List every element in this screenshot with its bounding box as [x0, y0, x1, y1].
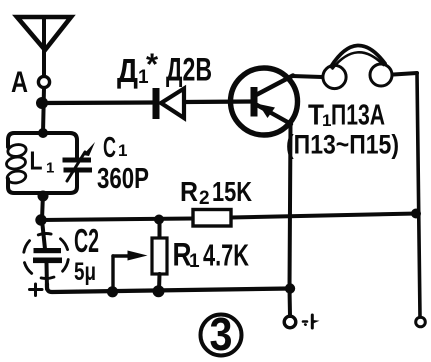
svg-text:C: C [103, 132, 116, 164]
svg-text:Д: Д [117, 52, 138, 89]
svg-text:R: R [180, 176, 198, 207]
svg-text:(П13~П15): (П13~П15) [286, 130, 399, 160]
svg-text:L: L [30, 146, 43, 176]
svg-text:5μ: 5μ [74, 258, 96, 286]
svg-text:15K: 15K [212, 176, 252, 207]
svg-text:3: 3 [210, 308, 233, 360]
svg-text:4.7K: 4.7K [203, 238, 249, 273]
svg-text:1: 1 [189, 251, 200, 272]
svg-text:1: 1 [118, 141, 127, 160]
svg-text:2: 2 [199, 188, 210, 209]
svg-text:*: * [146, 47, 159, 82]
svg-text:П13А: П13А [331, 100, 385, 132]
svg-text:1: 1 [46, 160, 54, 177]
svg-text:C2: C2 [74, 222, 99, 259]
svg-text:360Р: 360Р [97, 163, 149, 195]
svg-text:A: A [11, 66, 28, 99]
svg-text:Д2В: Д2В [166, 52, 212, 88]
